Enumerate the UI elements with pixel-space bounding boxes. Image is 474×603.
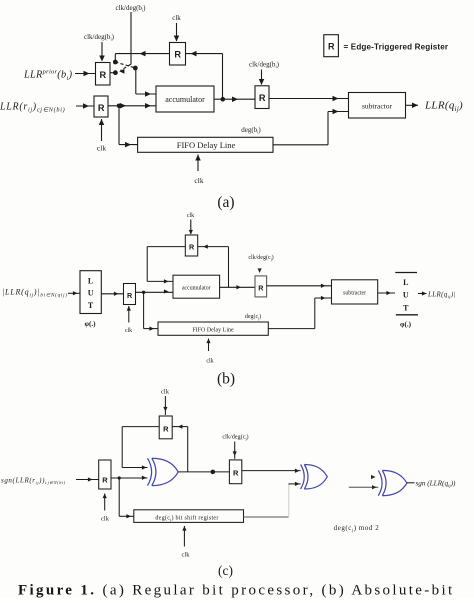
svg-text:φ(.): φ(.): [400, 321, 412, 329]
wire clk to R_c2: [104, 494, 106, 511]
register R3: [255, 86, 269, 109]
svg-text:U: U: [88, 289, 94, 298]
svg-text:R: R: [127, 291, 133, 300]
wire R_b3 to subtracter: [267, 285, 332, 287]
svg-text:R: R: [189, 243, 195, 252]
svg-text:deg(cj) bit shift register: deg(cj) bit shift register: [155, 515, 218, 522]
XOR gate 3: [378, 470, 407, 495]
svg-text:L: L: [88, 277, 93, 286]
wire R_c3 output to XOR2: [242, 470, 301, 472]
wire accumulator output: [214, 98, 255, 100]
LUT box: [80, 271, 101, 314]
wire clk to shift register: [183, 526, 185, 547]
wire feedback into R_c1 right: [187, 427, 189, 472]
wire XOR3 output: [407, 482, 415, 484]
node switch C: [133, 66, 138, 71]
svg-text:T: T: [403, 304, 409, 313]
FIFO Delay Line box: [138, 137, 273, 152]
svg-text:R: R: [259, 93, 266, 103]
svg-text:FIFO Delay Line: FIFO Delay Line: [192, 328, 234, 334]
wire sgn input to R_c2: [76, 479, 99, 481]
register R_c1: [159, 416, 172, 439]
svg-text:R: R: [102, 476, 108, 485]
register R4: [94, 96, 108, 117]
LUT2 overline: [395, 272, 417, 274]
node XOR1 output junction: [211, 470, 216, 475]
svg-text:deg(bi): deg(bi): [241, 126, 261, 135]
legend register R: [324, 35, 339, 57]
svg-text:clk/deg(cj): clk/deg(cj): [222, 434, 248, 441]
svg-text:subtracter: subtracter: [343, 290, 366, 296]
wire junction down to shift register: [118, 478, 120, 516]
wire clk/deg arrow to R_b3: [257, 268, 261, 273]
svg-text:deg(cj): deg(cj): [245, 313, 261, 320]
svg-text:clk: clk: [97, 144, 106, 153]
wire LUT2 output: [418, 293, 427, 295]
svg-text:= Edge-Triggered Register: = Edge-Triggered Register: [344, 42, 449, 51]
subtracter box (b): [332, 280, 378, 304]
node junction R4 output: [117, 104, 122, 109]
wire R_c2 output to XOR1 bottom input: [111, 477, 148, 479]
svg-text:R: R: [98, 103, 105, 113]
wire dashed switch arrow to B: [121, 64, 131, 70]
svg-text:clk: clk: [125, 328, 132, 334]
wire accumulator_b output to R_b3: [220, 286, 255, 288]
node switch A: [113, 60, 118, 65]
wire clk/deg to R3: [261, 70, 263, 85]
register R_b1: [185, 235, 197, 256]
svg-text:T: T: [88, 301, 94, 310]
register R_b3: [255, 276, 267, 297]
wire gray into XOR3 bottom input: [349, 486, 379, 488]
svg-text:R: R: [163, 425, 169, 434]
wire FIFO output to subtractor: [273, 144, 328, 146]
svg-text:U: U: [403, 291, 409, 300]
wire subtracter output to LUT2: [378, 292, 395, 294]
svg-text:FIFO Delay Line: FIFO Delay Line: [177, 140, 236, 150]
accumulator box (b): [173, 275, 220, 298]
wire feedback accumulator to R_b1: [228, 247, 230, 288]
LUT2 underline: [396, 314, 418, 316]
wire stub arrow XOR3 top input: [371, 475, 376, 479]
XOR gate 2: [301, 465, 328, 490]
wire clk/deg to R_c3: [234, 442, 236, 459]
wire shift register output gray: [244, 516, 289, 518]
XOR gate 1: [148, 458, 179, 485]
wire control vertical from clk/deg(b_i): [130, 12, 132, 65]
node switch B / R1 output: [110, 72, 115, 74]
svg-text:Figure 1. (a) Regular bit proc: Figure 1. (a) Regular bit processor, (b)…: [18, 583, 455, 599]
svg-text:clk/deg(bi): clk/deg(bi): [84, 33, 115, 42]
wire clk to FIFO (b): [208, 339, 210, 352]
wire dashed switch A to C: [115, 62, 135, 68]
wire arrow into accumulator lower input: [120, 103, 126, 109]
wire stub into XOR2 bottom input: [288, 483, 300, 485]
wire clk to R_b1: [190, 220, 192, 235]
svg-text:clk: clk: [101, 516, 110, 523]
wire XOR1 output: [178, 471, 229, 473]
wire faint link shift register to XOR2: [288, 485, 290, 517]
wire clk to R_c1: [164, 396, 166, 415]
svg-text:R: R: [99, 70, 106, 80]
svg-text:clk/deg(cj): clk/deg(cj): [248, 254, 273, 261]
svg-text:(c): (c): [218, 563, 233, 578]
register R_c3: [229, 460, 241, 484]
subtractor box: [349, 93, 406, 119]
wire clk to R_b2: [128, 306, 130, 323]
svg-text:L: L: [403, 278, 408, 287]
shift register box: [134, 510, 244, 523]
wire input to LUT: [68, 292, 80, 294]
register R1: [96, 63, 111, 86]
FIFO Delay Line box (b): [158, 322, 268, 335]
svg-text:deg(cj) mod 2: deg(cj) mod 2: [334, 524, 380, 533]
accumulator box: [156, 86, 214, 112]
svg-text:(a): (a): [217, 194, 234, 211]
wire R2 output down to switch A: [114, 54, 116, 62]
wire R_c1 output to XOR1 top input: [122, 426, 159, 428]
svg-text:R: R: [174, 49, 181, 59]
node accumulator output junction: [221, 97, 226, 102]
wire clk to R2: [176, 23, 178, 41]
svg-text:clk: clk: [194, 176, 203, 185]
wire junction down to FIFO: [118, 106, 120, 145]
svg-text:sgn (LLR(qij)): sgn (LLR(qij)): [416, 480, 456, 489]
wire feedback up to R2: [222, 54, 224, 100]
register R_b2: [124, 284, 136, 305]
wire subtractor output: [406, 104, 419, 106]
wire FIFO output to subtracter (b): [268, 328, 315, 330]
svg-text:clk/deg(bi): clk/deg(bi): [249, 61, 280, 70]
wire R_b2 output to accumulator: [136, 291, 174, 293]
svg-text:clk: clk: [161, 389, 170, 396]
svg-text:clk/deg(bi): clk/deg(bi): [116, 4, 147, 13]
svg-text:R: R: [258, 283, 264, 292]
wire LLR(r_ij) to R4: [76, 105, 94, 107]
svg-text:φ(.): φ(.): [84, 320, 96, 328]
svg-text:subtractor: subtractor: [362, 101, 392, 110]
wire R4 output to junction: [108, 105, 156, 107]
svg-text:accumulator: accumulator: [182, 285, 211, 291]
svg-text:(b): (b): [217, 371, 235, 388]
register R2: [170, 43, 186, 66]
register R_c2: [99, 460, 111, 489]
wire clk to FIFO: [197, 155, 199, 172]
svg-text:R: R: [233, 469, 239, 478]
wire R2 output left: [115, 53, 169, 55]
svg-text:accumulator: accumulator: [165, 95, 205, 104]
svg-text:LLR(qij)|: LLR(qij)|: [427, 292, 456, 300]
wire clk to R4: [101, 119, 103, 141]
wire switch C down to accumulator upper input: [135, 68, 137, 94]
wire clk/deg to R1: [101, 42, 103, 61]
svg-text:R: R: [328, 42, 335, 52]
wire LUT to R_b2: [101, 293, 123, 295]
svg-text:clk: clk: [172, 14, 181, 22]
svg-text:clk: clk: [206, 359, 213, 365]
svg-text:clk: clk: [187, 213, 194, 219]
wire R3 to subtractor: [269, 98, 349, 100]
svg-text:clk: clk: [182, 552, 191, 559]
wire LLR prior to R1: [75, 73, 96, 75]
node junction to shift register: [118, 476, 121, 479]
wire R_b1 output left and down to accumulator: [147, 246, 185, 248]
node junction to FIFO (b): [142, 291, 145, 294]
wire junction down to FIFO (b): [143, 292, 145, 328]
